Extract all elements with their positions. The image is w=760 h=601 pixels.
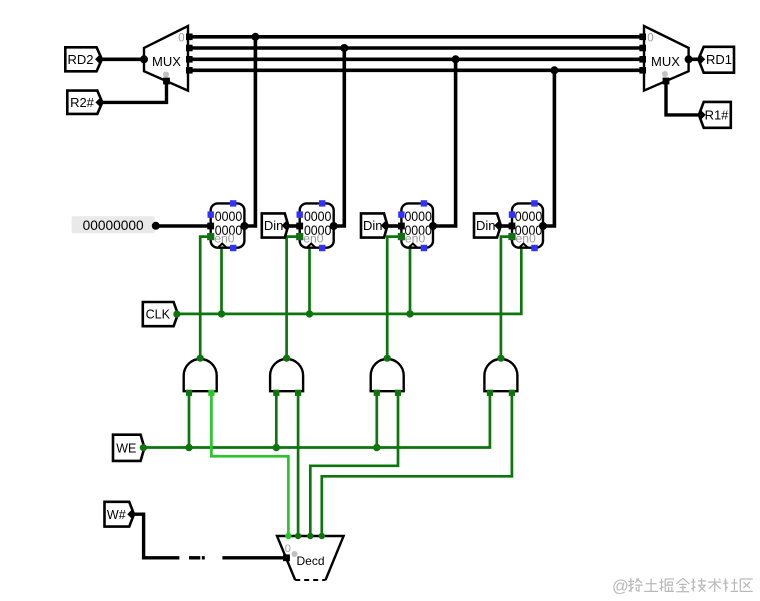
- wire reg2 Q vertical drop: [433, 59, 456, 226]
- mux U1 input pin 2: [186, 56, 193, 63]
- mux U2 output junction: [685, 55, 693, 63]
- wire Din to reg3 D: [501, 224, 512, 228]
- and gate G2 input pin 1: [374, 390, 380, 396]
- wire reg0 clock drop: [220, 248, 223, 314]
- junction on bus line 2: [340, 44, 348, 52]
- svg-text:en0: en0: [405, 232, 426, 246]
- register R3 bottom pin: [531, 245, 537, 251]
- wire reg3 Q vertical drop: [543, 70, 554, 226]
- register R0 bottom pin: [230, 245, 236, 251]
- register R0 Q junction: [240, 222, 248, 230]
- register R2 clock triangle: [408, 244, 417, 248]
- wire reg1 Q vertical drop: [334, 48, 345, 226]
- register R1 top pin: [319, 200, 325, 206]
- label RD2 pin: [95, 55, 104, 64]
- wire decoder out1 to AND1 input2: [297, 391, 300, 536]
- svg-text:0: 0: [178, 33, 184, 45]
- label WE: [113, 435, 144, 461]
- junction on bus line 4: [550, 66, 558, 74]
- mux U1 (left) body: [144, 26, 188, 91]
- svg-text:WE: WE: [116, 441, 136, 455]
- wire constant to reg0 D: [156, 224, 211, 228]
- svg-text:en0: en0: [214, 232, 235, 246]
- decoder out3 pin dot: [319, 534, 325, 540]
- mux U1 select pin: [163, 78, 170, 85]
- label RD1 pin: [696, 55, 705, 64]
- label Din 3: [474, 213, 501, 237]
- constant 00000000 background: [72, 216, 155, 233]
- wire AND0 output to reg0 en: [200, 237, 211, 358]
- svg-text:R2#: R2#: [70, 95, 95, 110]
- wire reg2 clock drop: [409, 248, 412, 314]
- decoder U3 dashed bottom edge: [295, 579, 325, 581]
- svg-text:0: 0: [285, 543, 291, 555]
- label Din 3 pin: [494, 221, 503, 230]
- wire W# to decoder select segment 2: [222, 556, 286, 559]
- wire R2# to mux U1 select: [102, 81, 166, 102]
- wire bus line 1 (reg0 Q to MUX inputs 0): [188, 35, 644, 39]
- mux U1 input pin 0: [186, 34, 193, 41]
- wire bus line 2 (reg1 Q to MUX inputs 1): [188, 46, 644, 50]
- register R0 en pin: [207, 233, 214, 240]
- svg-text:@: @: [612, 578, 629, 596]
- wire decoder out0 to AND0 input2 (high): [211, 391, 288, 536]
- wire decoder out2 to AND2 input2: [310, 391, 398, 536]
- wire reg0 Q vertical drop: [244, 37, 255, 226]
- register R3 clock triangle: [519, 244, 528, 248]
- and gate G3 output dot: [497, 355, 504, 362]
- mux U2 input pin 0: [639, 34, 646, 41]
- decoder out1 pin dot: [295, 534, 301, 540]
- decoder U3 select pin: [283, 554, 290, 561]
- register R2 en pin: [398, 233, 405, 240]
- decoder out0 pin dot: [285, 534, 291, 540]
- mux U2 input pin 3: [639, 67, 646, 74]
- label Din 1 pin: [282, 221, 291, 230]
- mux U2 select marker dot: [662, 71, 668, 77]
- mux U1 input pin 3: [186, 67, 193, 74]
- wire Din to reg2 D: [388, 224, 402, 228]
- label R1# pin: [697, 110, 706, 119]
- register R3 body: [512, 203, 543, 247]
- svg-text:RD1: RD1: [706, 52, 732, 67]
- mux U2 select pin: [663, 78, 670, 85]
- label RD1: [698, 47, 734, 73]
- wire mux U2 output to RD1: [689, 57, 699, 61]
- wire Din to reg1 D: [288, 224, 299, 228]
- svg-text:CLK: CLK: [146, 308, 171, 322]
- junction WE rail at AND2: [373, 444, 380, 451]
- junction on bus line 3: [452, 55, 460, 63]
- register R0 D pin: [207, 223, 214, 230]
- register R1 D pin: [296, 223, 303, 230]
- register R0 clock triangle: [218, 244, 227, 248]
- wire AND3 output to reg3 en: [501, 237, 512, 358]
- register R2 left upper pin: [398, 211, 404, 217]
- register R2 Q junction: [429, 222, 437, 230]
- and gate G0 input pin 1: [186, 390, 192, 396]
- label RD2: [65, 47, 102, 71]
- mux U2 (right) body: [644, 26, 689, 91]
- label W#: [105, 502, 135, 527]
- wire AND1 input1 drop: [275, 391, 278, 447]
- label Din 1: [262, 213, 289, 237]
- register R3 top pin: [531, 200, 537, 206]
- register R1 Q junction: [330, 222, 338, 230]
- and gate G2 input pin 2: [395, 390, 401, 396]
- junction CLK rail at reg0: [218, 310, 225, 317]
- junction WE rail at AND0: [185, 444, 192, 451]
- wire RD2 to mux U1 output: [102, 57, 144, 61]
- svg-text:MUX: MUX: [152, 54, 181, 69]
- svg-text:en0: en0: [516, 232, 537, 246]
- svg-text:W#: W#: [107, 508, 126, 522]
- label CLK: [143, 302, 178, 326]
- junction on bus line 1: [251, 33, 259, 41]
- junction CLK rail at reg2: [406, 310, 413, 317]
- decoder out2 pin dot: [307, 534, 313, 540]
- svg-text:0: 0: [647, 33, 653, 45]
- wire AND1 output to reg1 en: [287, 237, 300, 358]
- svg-text:Din: Din: [363, 218, 383, 233]
- register R1 en pin: [296, 233, 303, 240]
- wire W# dot segment: [202, 556, 205, 559]
- register R1 clock triangle: [307, 244, 316, 248]
- register R1 left upper pin: [297, 211, 303, 217]
- junction WE rail at AND1: [273, 444, 280, 451]
- wire reg1 clock drop: [308, 248, 311, 314]
- svg-text:Din: Din: [264, 218, 284, 233]
- register R3 D pin: [509, 223, 516, 230]
- register R0 body: [211, 203, 245, 247]
- constant output junction: [152, 222, 160, 230]
- label WE pin dot: [140, 444, 147, 451]
- wire bus line 4 (reg3 Q to MUX inputs 3): [188, 69, 644, 73]
- wire decoder out3 to AND3 input2: [322, 391, 512, 536]
- wire AND2 input1 drop: [375, 391, 378, 447]
- label W# pin: [127, 510, 136, 519]
- decoder U3 select marker dot: [292, 551, 298, 557]
- mux U1 select marker dot: [163, 72, 169, 78]
- register R2 bottom pin: [421, 245, 427, 251]
- label CLK pin dot: [173, 311, 180, 318]
- and gate G1 input pin 2: [295, 390, 301, 396]
- register R2 body: [401, 203, 433, 247]
- and gate G0 input pin 2: [208, 390, 214, 396]
- label Din 2 pin: [381, 221, 390, 230]
- and gate G3 input pin 1: [487, 390, 493, 396]
- register R1 bottom pin: [319, 245, 325, 251]
- decoder output pin dots overlay: [285, 533, 291, 539]
- label R2# pin: [95, 98, 104, 107]
- and gate G1 input pin 1: [273, 390, 279, 396]
- and gate G2 output dot: [384, 355, 391, 362]
- and gate G3 input pin 2: [509, 390, 515, 396]
- label R1#: [699, 102, 731, 128]
- wire R1# to mux U2 select: [666, 81, 699, 115]
- svg-text:Din: Din: [476, 218, 496, 233]
- register R0 top pin: [230, 200, 236, 206]
- and gate G1 output dot: [283, 355, 290, 362]
- junction CLK rail at reg1: [306, 310, 313, 317]
- wire AND0 input1 drop: [188, 391, 191, 447]
- and gate G0: [184, 359, 217, 391]
- wire bus line 3 (reg2 Q to MUX inputs 2): [188, 57, 644, 61]
- svg-text:en0: en0: [303, 232, 324, 246]
- svg-text:R1#: R1#: [705, 108, 730, 123]
- and gate G0 output dot: [197, 355, 204, 362]
- register R0 left upper pin: [208, 211, 214, 217]
- wire CLK rail: [178, 248, 521, 314]
- register R3 en pin: [508, 233, 515, 240]
- decoder U3 body: [277, 536, 344, 580]
- and gate G3: [484, 359, 517, 391]
- mux U1 output junction: [140, 55, 148, 63]
- label Din 2: [361, 213, 388, 237]
- register R1 body: [300, 203, 334, 247]
- register R3 Q junction: [539, 222, 547, 230]
- mux U2 input pin 2: [639, 56, 646, 63]
- and gate G2: [371, 359, 404, 391]
- svg-text:00000000: 00000000: [83, 218, 144, 233]
- svg-text:MUX: MUX: [651, 54, 680, 69]
- register R3 left upper pin: [509, 211, 515, 217]
- wire AND2 output to reg2 en: [387, 237, 401, 358]
- mux U2 input pin 1: [639, 45, 646, 52]
- register R2 top pin: [421, 200, 427, 206]
- svg-text:Decd: Decd: [296, 554, 324, 568]
- register R2 D pin: [398, 223, 405, 230]
- mux U1 input pin 1: [186, 45, 193, 52]
- and gate G1: [270, 359, 303, 391]
- wire WE rail: [144, 391, 490, 447]
- label R2#: [67, 91, 102, 114]
- svg-text:RD2: RD2: [67, 52, 93, 67]
- wire W# dash segment: [189, 556, 200, 559]
- wire W# to decoder select segment 1: [134, 514, 179, 558]
